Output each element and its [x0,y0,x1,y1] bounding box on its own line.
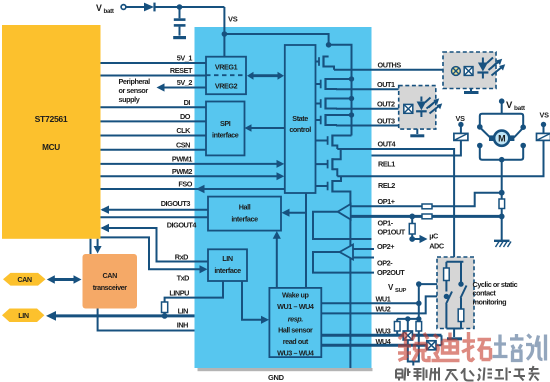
wire LIN bus with arrow to LIN connector [50,314,195,317]
wire INH from CAN transceiver [98,308,195,330]
arrow to uC ADC [412,238,421,240]
wire MCU to CAN transceiver left [90,239,92,254]
wire WU4 (thick) [321,344,427,347]
svg-text:interface: interface [212,131,239,140]
svg-text:CSN: CSN [176,140,190,149]
svg-text:OUT1: OUT1 [377,80,395,89]
ground hatched under shunt [494,240,510,242]
MCU block ST72561 [2,25,101,239]
svg-text:Wake up: Wake up [282,291,309,300]
monitoring bottom join to ground [446,329,461,338]
resistor OP1+ series [422,204,432,209]
svg-text:5V_2: 5V_2 [177,78,193,87]
wire DO [101,120,207,122]
stub to switch WU3 [407,319,409,333]
svg-text:LIN: LIN [18,311,29,320]
node rail M1 drain [326,42,332,48]
svg-text:Hall sensor: Hall sensor [278,326,313,335]
ground under lamp cluster [470,89,472,92]
svg-text:OUTHS: OUTHS [378,61,402,70]
wire CSN [101,149,207,151]
wire State control to SPI with arrow [249,127,285,129]
node OP1- sense [499,214,505,220]
svg-text:resp.: resp. [288,315,304,324]
lamp icon box-X [464,67,473,76]
svg-text:Cyclic or static: Cyclic or static [473,280,518,289]
pull-up bar [397,318,419,320]
svg-text:WU2: WU2 [376,304,391,313]
node bridge upper right [520,124,526,130]
monitoring left branch resistor [445,262,447,268]
transistor M3 OUT2 driver [316,103,321,105]
switch contact left [446,292,452,329]
svg-text:LINPU: LINPU [169,289,189,298]
resistor LIN pull-up [162,302,168,313]
arrow into Hall interface right [286,212,306,214]
LIN interface box [208,249,247,281]
wire REL2 [337,140,543,176]
svg-text:WU3: WU3 [376,326,391,335]
node bridge upper left [477,124,483,130]
svg-text:VS: VS [228,15,238,24]
wire PWM1 with arrow into State control [101,163,280,165]
SPI interface box [206,102,245,156]
node WU1 to VSUP [416,301,422,307]
resistor WU4 pull-up [418,319,420,322]
wire FSO with arrow toward MCU [101,188,285,190]
switch icon WU4 box-X [427,341,436,350]
Wake up box [269,288,321,357]
Vbatt terminal at motor bridge [499,98,505,104]
wire WU3 to WU4 link [436,335,442,345]
trunk State control to Hall and Wake up [305,193,307,288]
node bridge lower left [477,143,483,149]
wire Vbatt to bridge [501,101,503,114]
svg-text:SPI: SPI [220,119,231,128]
svg-text:OP2-: OP2- [377,259,393,268]
svg-text:OUT2: OUT2 [377,100,395,109]
wire WU3 (thick) [321,334,403,337]
svg-text:OP2OUT: OP2OUT [377,268,405,277]
switch contact upper left [481,128,492,138]
switch icon WU3 box-X [403,331,412,340]
wire OUTHS [334,69,443,71]
switch contact right [461,286,467,310]
wire CLK [101,135,207,137]
svg-text:OUT4: OUT4 [378,139,397,148]
svg-text:transceiver: transceiver [93,283,128,292]
watermark blue char 5 (xun) [526,335,546,361]
svg-text:VS: VS [540,111,550,120]
wire to contact monitoring box [453,156,455,262]
wire 5V_1 [101,62,207,64]
svg-text:State: State [292,114,308,123]
svg-text:WU1 – WU4: WU1 – WU4 [277,302,314,311]
svg-text:OP1-: OP1- [378,219,394,228]
svg-text:LIN: LIN [222,254,233,263]
wire VSUP vertical [418,284,420,319]
Vbatt terminal [121,5,126,10]
double arrow VREG to State control [252,74,280,77]
ground bar under capacitor [173,36,186,39]
node junction at capacitor [177,4,183,10]
node REL2/OP1+ riser junction [499,190,505,196]
motor bridge top rail [480,114,523,127]
wire OP1- (thick) [351,215,502,218]
node VSUP entry [458,281,463,286]
wire DI [101,106,207,108]
wire DIGOUT4 [101,216,209,218]
switch contact upper right [514,128,523,137]
wire PWM2 with arrow into State control [101,175,280,177]
double arrow CAN bus [51,278,77,281]
monitoring top bar [446,261,463,263]
LED light arrows 2 [425,98,440,114]
svg-text:VREG2: VREG2 [215,82,238,91]
svg-text:or sensor: or sensor [119,86,149,95]
VREG divider dashed [206,74,246,76]
svg-text:Peripheral: Peripheral [119,77,151,86]
wire OUT4 [337,149,454,156]
ground under lamp box 2 [416,129,418,134]
watermark gray text row (she pin he tian xian she ji zhuan jia) [396,366,540,381]
watermark red char 3 (tuo) [462,332,491,361]
wire VSUP to monitoring box [419,283,437,285]
main IC block shadow [198,368,373,371]
wire REL1 [372,140,461,155]
resistor shunt [499,199,505,209]
resistor WU3 pull-up [396,319,398,322]
motor bridge bottom rail [480,146,523,160]
svg-text:VREG1: VREG1 [215,63,238,72]
resistor OP1- series [422,214,432,219]
wires below WU switches [408,335,419,365]
wire OUT3 [336,125,399,127]
svg-text:OP2+: OP2+ [377,242,394,251]
svg-text:Hall: Hall [239,203,251,212]
svg-text:INH: INH [177,321,188,330]
motor M [489,135,494,141]
LED icon in lamp cluster [478,63,488,72]
svg-text:batt: batt [514,105,526,112]
capacitor C1 [179,7,181,18]
svg-text:RESET: RESET [170,66,193,75]
LIN connector hexagon [2,309,44,323]
contact monitoring dashed box [437,257,474,329]
svg-text:M: M [498,134,505,144]
svg-text:REL1: REL1 [378,160,395,169]
svg-text:DIGOUT3: DIGOUT3 [161,199,191,208]
node LIN junction [162,313,168,319]
lamp cluster dashed box [443,52,496,89]
wire OUT2 [336,108,399,110]
svg-text:CAN: CAN [103,271,118,280]
svg-text:OP1+: OP1+ [378,197,395,206]
wire VS vertical [223,7,225,57]
CAN transceiver box [83,254,138,309]
relay K2 coil [537,133,550,140]
relay K1 coil [454,133,468,140]
wire WU1 [321,302,419,304]
node bridge bottom center [499,157,505,163]
wire DIGOUT3 with arrow into MCU [102,209,208,211]
svg-text:DO: DO [180,112,191,121]
LED light arrows [487,58,503,76]
svg-text:WU3 – WU4: WU3 – WU4 [277,349,314,358]
svg-text:batt: batt [104,8,114,15]
svg-text:OUT3: OUT3 [377,116,395,125]
node OP1- tap [409,214,415,220]
svg-text:RxD: RxD [175,252,188,261]
svg-text:WU1: WU1 [376,294,391,303]
node OP1OUT junction [409,236,415,242]
monitoring right branch [460,262,462,286]
svg-text:VS: VS [456,114,466,123]
svg-text:MCU: MCU [42,143,60,152]
wire bridge center down [501,160,503,199]
Hall interface box [208,197,281,231]
svg-text:CAN: CAN [17,275,32,284]
svg-text:LIN: LIN [178,307,189,316]
svg-text:PWM2: PWM2 [172,167,192,176]
svg-text:SUP: SUP [395,288,406,294]
node WU2 entry [444,294,449,299]
wire diode to VS corner [156,6,225,8]
LED icon 2 [417,102,427,111]
svg-text:DIGOUT4: DIGOUT4 [167,220,198,229]
svg-text:GND: GND [268,373,285,382]
transistor M2 OUT1 driver [316,83,321,85]
wire Vbatt to diode [127,6,145,8]
svg-text:monitoring: monitoring [473,297,507,306]
svg-text:µC: µC [429,232,439,241]
wire LINPU from LIN interface bottom [165,281,223,302]
transistor M4 OUT3 driver [316,119,321,121]
svg-text:supply: supply [119,95,141,104]
svg-text:read out: read out [283,337,309,346]
svg-text:V: V [506,100,513,111]
op-amp U2 [340,245,353,260]
svg-text:interface: interface [214,266,241,275]
wire VS rail to MOSFET column [224,34,351,136]
wire RESET [101,75,207,77]
transistor M1 OUTHS driver [316,61,319,63]
wire OP2- stub [353,257,374,259]
node bridge lower right [520,143,526,149]
svg-text:WU4: WU4 [376,337,392,346]
watermark red char 2 (di) [432,333,460,361]
wire OP2+ stub [353,248,374,250]
arrow Wake up to Hall interface [276,236,278,288]
watermark blue char 4 (pei) [493,334,524,361]
wire WU2 jog to monitoring [321,296,437,313]
svg-text:CLK: CLK [176,126,191,135]
svg-text:control: control [289,125,311,134]
wire 5V_2 to peripheral supply arrow [160,87,206,89]
transistor M5 OUT4 driver [316,140,328,142]
VREG1/VREG2 box [206,57,246,94]
lamp icon box-X 2 [404,104,413,113]
lamp icon circle-X [452,67,461,76]
svg-text:ST72561: ST72561 [35,114,68,124]
svg-text:TxD: TxD [177,273,190,282]
wire RxD with arrow into MCU [102,228,208,262]
lamp dashed box 2 [399,86,436,130]
svg-text:contact: contact [473,289,497,298]
svg-text:PWM1: PWM1 [172,155,192,164]
svg-text:DI: DI [184,98,191,107]
diode D1 [144,3,154,12]
svg-text:V: V [96,3,102,13]
State control box [285,45,316,193]
wire MCU to CAN transceiver right with arrow [97,239,99,248]
svg-text:REL2: REL2 [378,181,395,190]
svg-text:interface: interface [231,215,258,224]
transistor M7 low side [316,185,328,187]
svg-text:OP1OUT: OP1OUT [378,228,406,237]
resistor to ADC tap [411,216,413,223]
watermark red char 1 (rui) [398,332,429,361]
transistor M6 low side [316,163,328,165]
wire OP1+ [351,205,422,207]
op-amp U1 [338,204,351,220]
svg-text:ADC: ADC [429,242,445,251]
svg-text:5V_1: 5V_1 [177,54,193,63]
node VS [222,31,228,37]
wire TxD with arrow into LIN interface [101,237,204,269]
main IC block (driver chip) [195,27,372,368]
CAN connector hexagon [3,273,46,286]
svg-text:FSO: FSO [178,180,192,189]
wire LIN interface to Wake up arrow [242,281,264,320]
wire OUT1 [336,88,399,90]
